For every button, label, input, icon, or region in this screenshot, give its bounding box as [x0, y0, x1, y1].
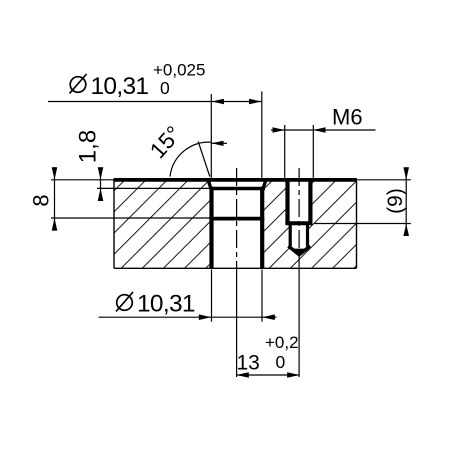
svg-text:0: 0 [160, 78, 170, 98]
svg-text:(9): (9) [384, 188, 407, 214]
svg-text:8: 8 [29, 194, 54, 206]
svg-text:10,31: 10,31 [91, 73, 149, 100]
svg-text:13: 13 [237, 352, 260, 375]
svg-text:10,31: 10,31 [137, 291, 195, 318]
svg-text:+0,2: +0,2 [265, 333, 299, 352]
svg-text:0: 0 [276, 352, 286, 372]
svg-text:M6: M6 [332, 105, 363, 130]
svg-text:1,8: 1,8 [75, 130, 102, 163]
svg-text:+0,025: +0,025 [153, 61, 205, 80]
